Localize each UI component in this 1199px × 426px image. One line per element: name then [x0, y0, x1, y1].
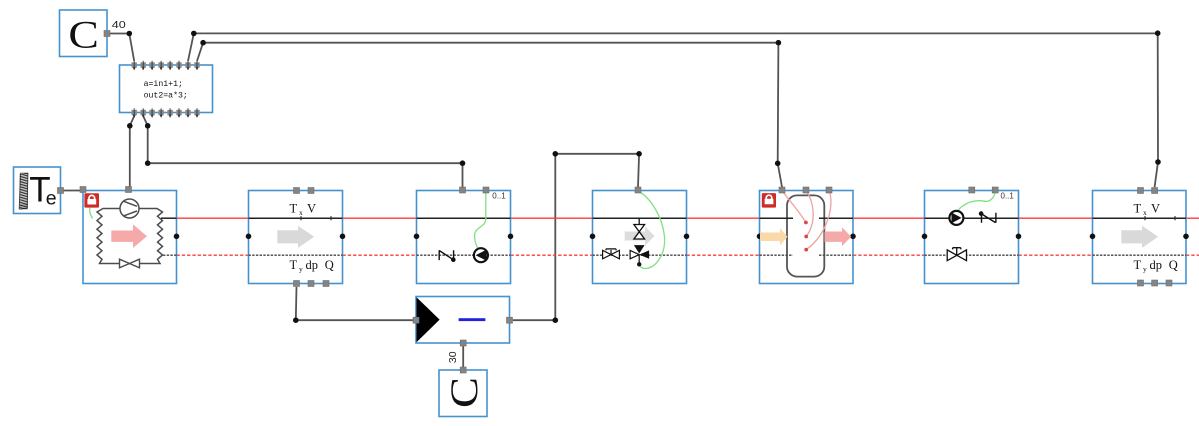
wire code bottom2 to pump P1 top	[143, 116, 462, 187]
icon V1 solid line	[593, 217, 687, 219]
block pump P1	[417, 191, 511, 284]
wire supply line red segments	[177, 217, 1199, 219]
node bend above S2	[1155, 159, 1161, 165]
icon V1 gray arrow	[625, 227, 655, 246]
svg-text:0..1: 0..1	[492, 191, 506, 200]
wire code bottom1 to heat pump top	[130, 116, 134, 187]
node P2 left	[922, 234, 928, 240]
icon S2 gray arrow	[1121, 226, 1158, 248]
svg-text:y: y	[299, 265, 303, 274]
icon V1 three-way valve	[630, 250, 639, 258]
node bend top line 1 left	[191, 31, 197, 37]
wire return line red dashed segments	[177, 254, 1199, 256]
icon S1 dashed line	[249, 254, 343, 256]
wire Te to heat pump	[64, 190, 81, 192]
icon HP black line to right edge	[161, 217, 177, 219]
ports S1	[294, 188, 300, 194]
svg-text:x: x	[1143, 208, 1147, 217]
block Te source	[14, 167, 61, 214]
ports code top row	[132, 61, 200, 71]
port HP top	[126, 187, 132, 193]
ports P2 top	[969, 187, 975, 193]
block storage tank	[760, 191, 854, 284]
icon tank vessel	[787, 195, 824, 276]
icon P2 pump	[949, 211, 963, 225]
icon P2 solid line	[925, 217, 1019, 219]
block sensor S1	[249, 191, 343, 284]
icon HP expansion valve	[120, 259, 140, 268]
svg-text:V: V	[307, 202, 316, 216]
icon tank sensor curves	[782, 191, 831, 250]
icon P2 dashed line	[925, 254, 1019, 256]
port V1 top	[635, 187, 641, 193]
svg-text:T: T	[290, 258, 298, 272]
icon HP loop left zigzag	[97, 209, 120, 264]
svg-text:T: T	[1134, 202, 1142, 216]
node bend above pump P1	[460, 160, 466, 166]
node bend code-pump corner	[145, 160, 151, 166]
icon V1 left hand valve	[603, 250, 620, 258]
port C2 top	[460, 367, 466, 373]
icon P1 check valve	[439, 250, 453, 260]
node bend top line 2 right	[776, 40, 782, 46]
icon HP loop right zigzag	[139, 209, 163, 264]
icon P1 pump	[474, 248, 488, 262]
block comparator	[416, 297, 510, 344]
node bend above tank	[775, 161, 781, 167]
icon S2 solid line	[1093, 217, 1187, 219]
icon P1 solid line	[417, 217, 511, 219]
icon tank pink arrow	[825, 227, 852, 246]
icon V1 vertical valve	[638, 218, 640, 224]
icon S2 dashed line	[1093, 254, 1187, 256]
block constant C1	[60, 10, 108, 57]
icon comparator blue dash	[459, 318, 486, 321]
node bend comparator riser top	[553, 151, 559, 157]
port Te out	[58, 188, 64, 194]
svg-text:T: T	[290, 202, 298, 216]
icon HP lock	[84, 193, 99, 207]
node bend below S1	[293, 317, 299, 323]
ports comparator	[413, 317, 419, 323]
wire comparator bottom to constant C2	[462, 346, 464, 368]
svg-text:0..1: 0..1	[1001, 191, 1015, 200]
node tank right	[850, 234, 856, 240]
svg-text:C: C	[68, 13, 99, 57]
block sensor S2	[1093, 191, 1187, 284]
wire sensor S1 bottom to comparator input	[296, 287, 413, 320]
icon tank orange arrow	[760, 228, 788, 245]
svg-text:dp: dp	[1150, 258, 1163, 272]
node P1 left	[414, 234, 420, 240]
wire C1 to code block in1	[110, 34, 134, 62]
node P1 right	[508, 234, 514, 240]
wire HP green stub	[90, 208, 93, 219]
node bend C1	[127, 31, 133, 37]
wire code out8 to tank top (second top line)	[197, 43, 782, 187]
svg-text:Q: Q	[325, 258, 334, 272]
svg-text:out2=a*3;: out2=a*3;	[144, 90, 188, 100]
node P2 right	[1016, 234, 1022, 240]
icon V1 dashed line	[593, 254, 687, 256]
node bend top line 2 left	[200, 40, 206, 46]
icon HP dashed stub	[163, 254, 177, 256]
svg-text:Q: Q	[1169, 258, 1178, 272]
block valve V1	[593, 191, 687, 284]
wire code out7 to sensor S2 top (long top line)	[188, 33, 1158, 187]
svg-text:y: y	[1143, 265, 1147, 274]
ports P1 top	[460, 187, 466, 193]
node bend below code 2	[145, 123, 151, 129]
svg-text:T: T	[1134, 258, 1142, 272]
ports tank top	[779, 187, 785, 193]
svg-text:30: 30	[447, 351, 459, 363]
port HP corner	[80, 187, 86, 193]
icon S1 gray arrow	[277, 226, 314, 248]
ports S2	[1138, 188, 1144, 194]
wire comparator output to valve block top	[513, 154, 639, 320]
wire V1 green loop	[638, 191, 665, 269]
icon S1 solid line	[249, 217, 343, 219]
node HP right	[174, 234, 180, 240]
ports code bottom row	[132, 108, 200, 118]
icon HP compressor circle	[120, 199, 139, 218]
node S2 right	[1183, 234, 1189, 240]
block code/equation	[120, 65, 213, 113]
node bend above valve block	[636, 151, 642, 157]
svg-text:C: C	[442, 377, 486, 408]
wire P1 green control	[475, 191, 486, 249]
icon P2 check valve	[981, 213, 996, 223]
node V1 left	[590, 234, 596, 240]
node S2 left	[1090, 234, 1096, 240]
svg-text:V: V	[1151, 202, 1160, 216]
svg-text:x: x	[299, 208, 303, 217]
port C1 out	[104, 31, 110, 37]
node tank left	[757, 234, 763, 240]
icon P1 dashed line	[417, 254, 511, 256]
wire P2 green control	[958, 191, 995, 211]
block pump P2	[925, 191, 1019, 284]
node S1 left	[246, 234, 252, 240]
icon comparator triangle	[417, 297, 440, 342]
node bend top line 1 right	[1155, 30, 1161, 36]
node bend below code 1	[127, 123, 133, 129]
node V1 right	[684, 234, 690, 240]
node S1 right	[340, 234, 346, 240]
icon Te wall hatch	[19, 173, 28, 209]
svg-text:dp: dp	[306, 258, 319, 272]
icon HP pink arrow	[111, 224, 147, 248]
node bend right of comparator	[553, 317, 559, 323]
svg-text:e: e	[46, 187, 57, 209]
svg-text:40: 40	[112, 19, 126, 31]
svg-text:a=in1+1;: a=in1+1;	[144, 79, 183, 89]
icon tank lock	[762, 193, 776, 208]
block heat pump	[83, 191, 177, 284]
block constant C2	[439, 370, 487, 417]
icon tank lines	[760, 217, 854, 219]
icon P2 hand valve	[947, 250, 966, 261]
